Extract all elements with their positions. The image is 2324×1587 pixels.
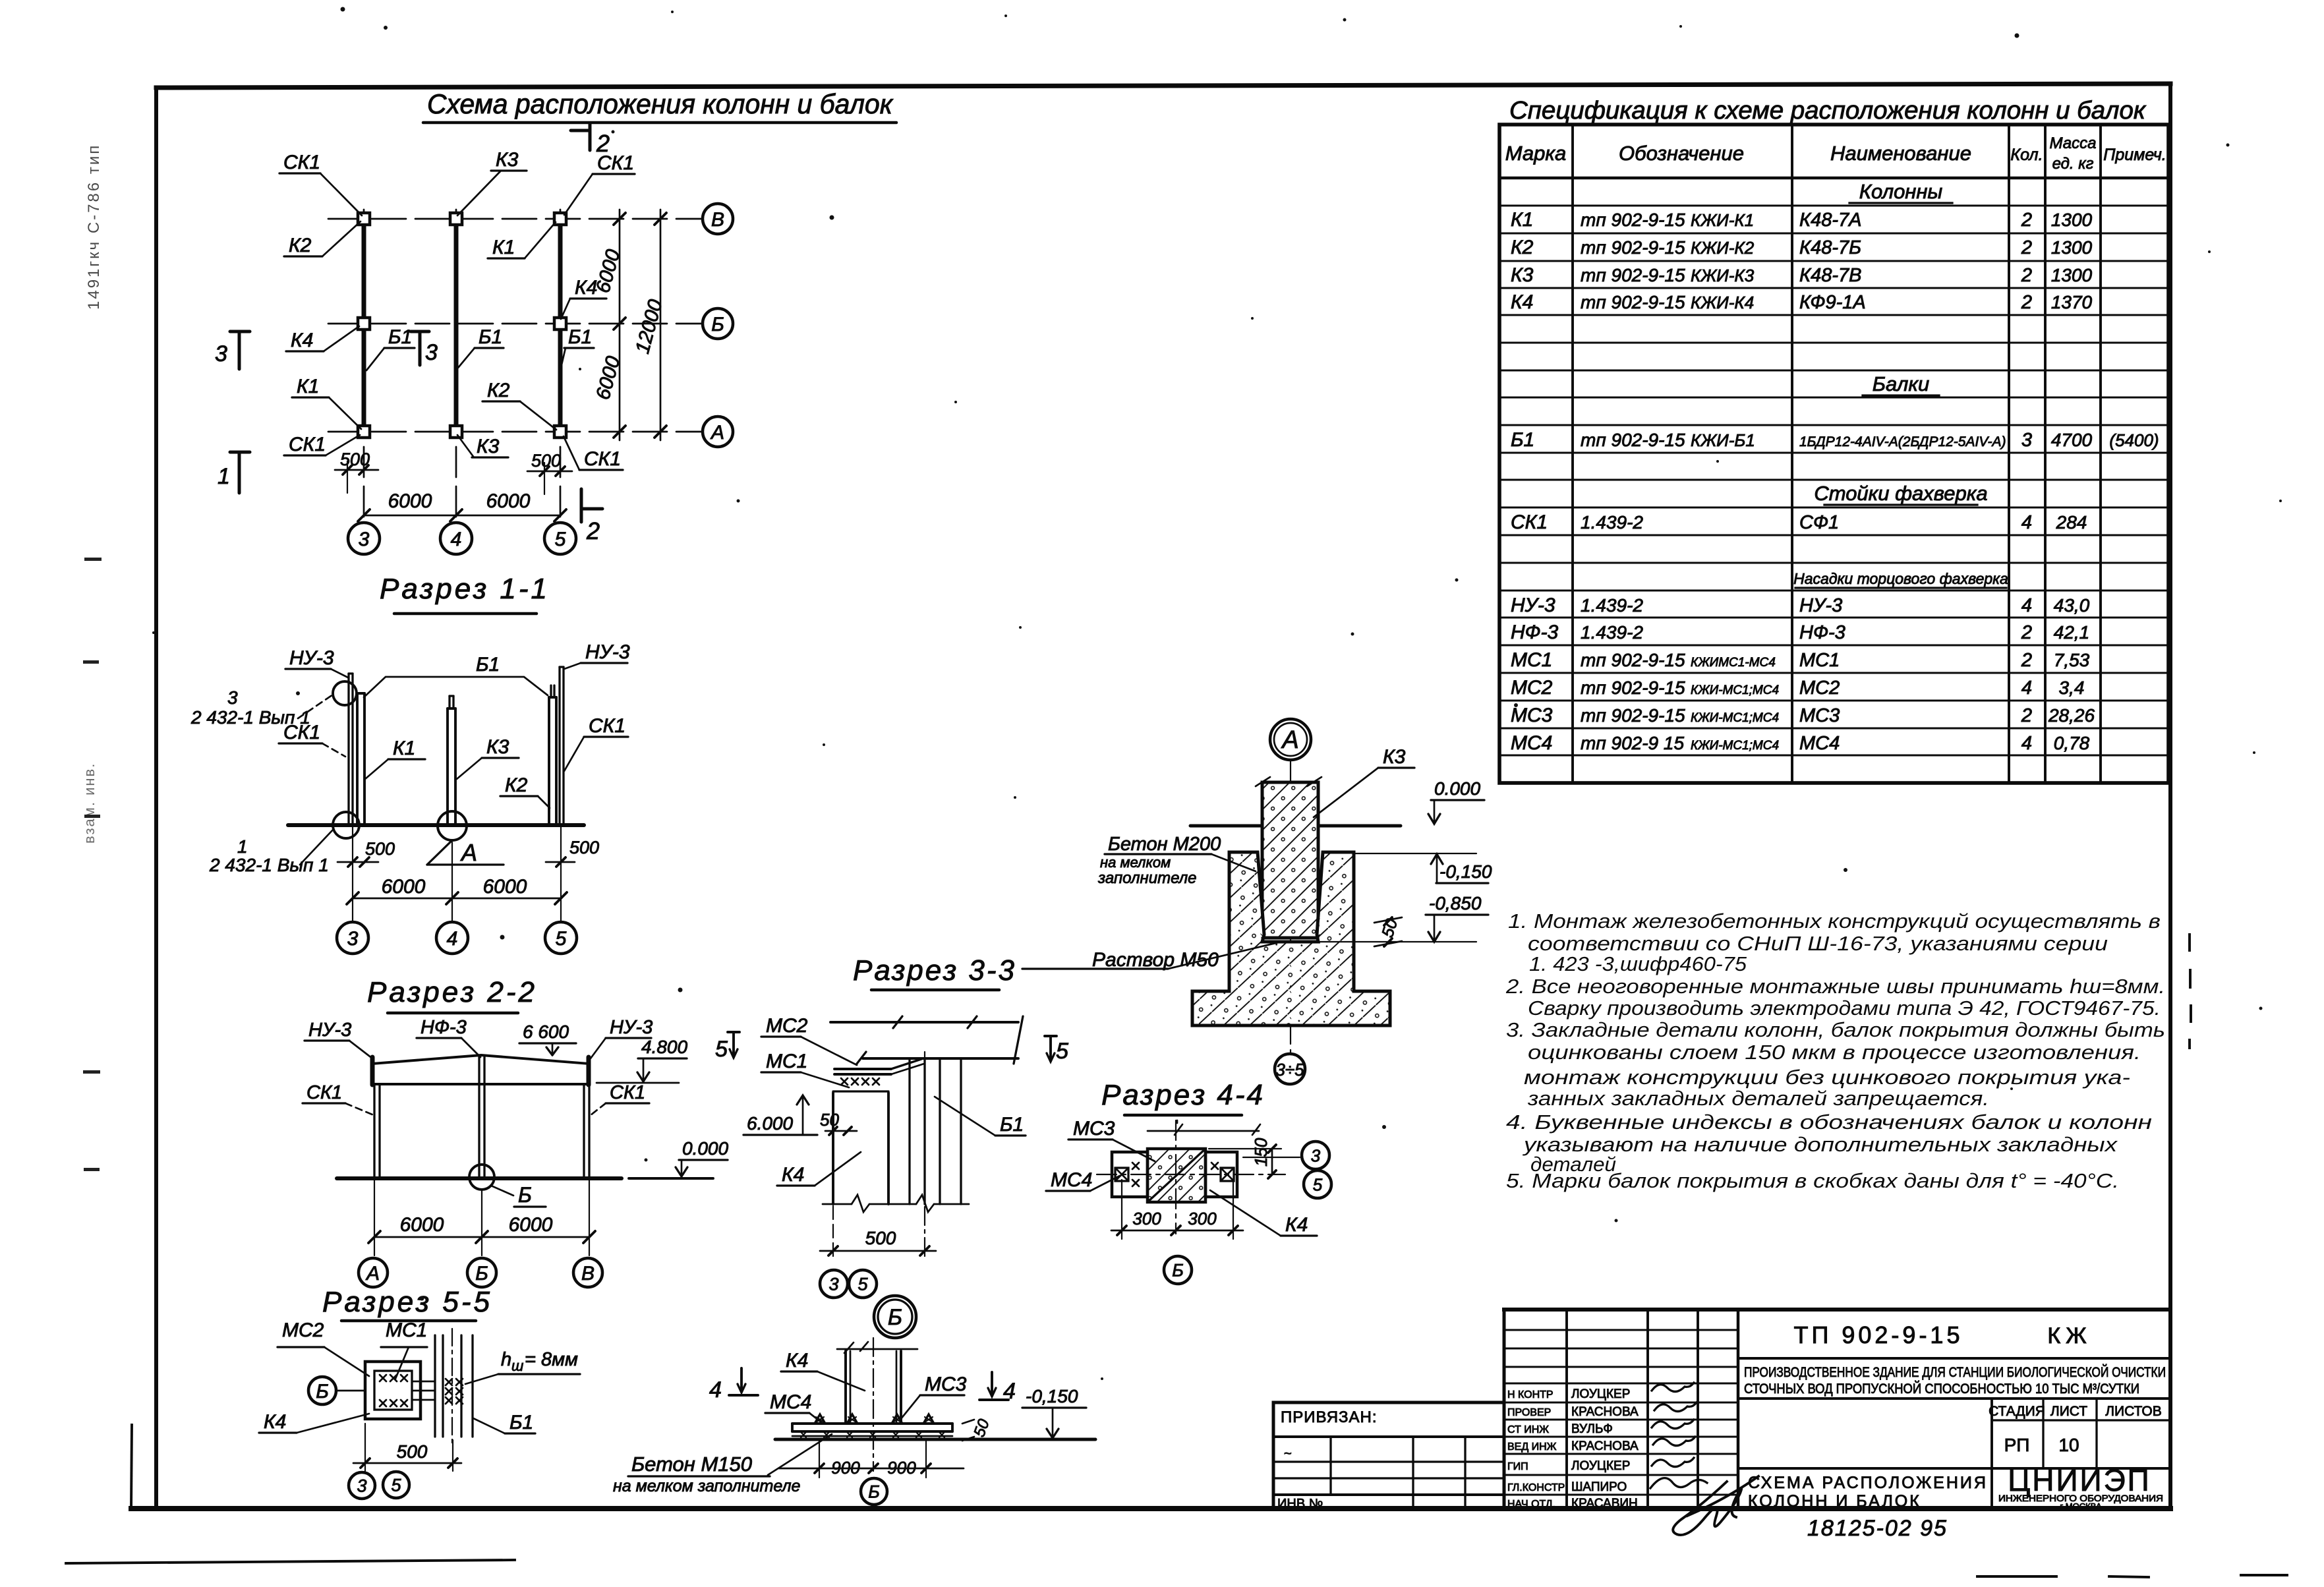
svg-text:2. Все неоговоренные монтажн: 2. Все неоговоренные монтажные швы прини…: [1505, 975, 2165, 998]
svg-text:5: 5: [1313, 1174, 1323, 1194]
svg-text:3: 3: [359, 529, 370, 550]
svg-text:(5400): (5400): [2109, 430, 2159, 450]
svg-text:2 432-1 Вып 1: 2 432-1 Вып 1: [209, 855, 329, 875]
svg-text:7,53: 7,53: [2054, 650, 2090, 670]
svg-text:Б1: Б1: [388, 326, 412, 348]
svg-text:4: 4: [2021, 595, 2032, 616]
svg-text:К3: К3: [1383, 746, 1406, 768]
svg-text:К4: К4: [1511, 291, 1533, 313]
svg-text:оцинкованы слоем 150 мкм в: оцинкованы слоем 150 мкм в процессе изго…: [1528, 1041, 2141, 1064]
svg-text:4: 4: [2021, 733, 2032, 754]
svg-text:5. Марки балок покрытия в ск: 5. Марки балок покрытия в скобках даны д…: [1506, 1169, 2119, 1192]
svg-text:4. Буквенные индексы в обоз: 4. Буквенные индексы в обозначениях бало…: [1506, 1111, 2152, 1134]
svg-text:ГЛ.КОНСТР: ГЛ.КОНСТР: [1507, 1482, 1565, 1493]
svg-text:КОЛОНН И БАЛОК: КОЛОНН И БАЛОК: [1748, 1492, 1921, 1511]
svg-text:КЖ: КЖ: [2047, 1323, 2091, 1348]
svg-text:-0,150: -0,150: [1026, 1386, 1078, 1406]
svg-text:2: 2: [2021, 650, 2032, 671]
svg-text:КЖИ-К1: КЖИ-К1: [1691, 210, 1754, 230]
svg-text:1370: 1370: [2051, 292, 2093, 312]
svg-text:12000: 12000: [631, 297, 667, 356]
svg-text:Разрез 5-5: Разрез 5-5: [322, 1286, 492, 1318]
svg-text:Б: Б: [518, 1183, 532, 1207]
svg-text:42,1: 42,1: [2054, 622, 2090, 643]
svg-text:ЛИСТ: ЛИСТ: [2050, 1404, 2087, 1419]
svg-text:4: 4: [451, 529, 462, 550]
svg-text:Обозначение: Обозначение: [1619, 142, 1744, 165]
svg-text:Колонны: Колонны: [1859, 180, 1943, 203]
svg-text:6000: 6000: [382, 876, 426, 898]
svg-text:СТ ИНЖ: СТ ИНЖ: [1507, 1424, 1549, 1435]
svg-text:ед. кг: ед. кг: [2052, 155, 2094, 173]
svg-text:900: 900: [831, 1458, 860, 1478]
svg-text:Бетон М150: Бетон М150: [631, 1453, 752, 1476]
svg-text:1300: 1300: [2051, 265, 2093, 285]
svg-text:ш: ш: [511, 1358, 523, 1374]
svg-text:Кол.: Кол.: [2010, 146, 2043, 164]
svg-text:1300: 1300: [2051, 237, 2093, 258]
svg-text:КРАСНОВА: КРАСНОВА: [1571, 1405, 1639, 1419]
svg-text:500: 500: [340, 449, 370, 469]
svg-text:КРАСНОВА: КРАСНОВА: [1571, 1439, 1639, 1453]
svg-text:5: 5: [556, 928, 567, 950]
svg-text:284: 284: [2056, 512, 2087, 533]
svg-text:Бетон М200: Бетон М200: [1108, 834, 1221, 855]
svg-text:Спецификация к схеме распол: Спецификация к схеме расположения колонн…: [1509, 97, 2147, 125]
svg-text:НУ-3: НУ-3: [289, 647, 334, 669]
svg-text:К4: К4: [782, 1164, 804, 1186]
svg-text:43,0: 43,0: [2054, 595, 2090, 616]
svg-text:ЛОУЦКЕР: ЛОУЦКЕР: [1571, 1459, 1630, 1473]
svg-text:соответствии со СНиП Ш-16-7: соответствии со СНиП Ш-16-73, указаниями…: [1528, 932, 2108, 955]
svg-text:МС3: МС3: [1511, 705, 1553, 726]
svg-text:2: 2: [586, 517, 600, 544]
svg-text:5: 5: [715, 1037, 728, 1062]
svg-text:Б: Б: [475, 1263, 488, 1284]
svg-text:5: 5: [857, 1275, 868, 1294]
svg-text:МС3: МС3: [925, 1373, 967, 1395]
svg-text:500: 500: [365, 839, 395, 859]
svg-text:18125-02 95: 18125-02 95: [1807, 1516, 1948, 1541]
svg-text:тп 902-9-15: тп 902-9-15: [1581, 705, 1685, 726]
svg-text:6000: 6000: [509, 1214, 553, 1236]
svg-text:тп 902-9-15: тп 902-9-15: [1581, 237, 1685, 258]
svg-text:тп 902-9 15: тп 902-9 15: [1581, 733, 1684, 753]
svg-text:4: 4: [2021, 512, 2032, 533]
svg-text:МС3: МС3: [1073, 1118, 1115, 1140]
svg-text:1300: 1300: [2051, 210, 2093, 230]
svg-text:К48-7А: К48-7А: [1799, 210, 1861, 231]
svg-text:НУ-3: НУ-3: [610, 1017, 653, 1038]
svg-text:3: 3: [425, 340, 438, 365]
svg-text:~: ~: [1284, 1447, 1292, 1461]
svg-text:КЖИМС1-МС4: КЖИМС1-МС4: [1691, 656, 1776, 670]
svg-text:3÷5: 3÷5: [1275, 1060, 1304, 1080]
svg-text:Б1: Б1: [1000, 1114, 1024, 1136]
svg-text:МС3: МС3: [1799, 705, 1840, 726]
svg-text:на мелком заполнителе: на мелком заполнителе: [613, 1477, 800, 1495]
svg-text:3: 3: [357, 1476, 366, 1496]
svg-text:СК1: СК1: [589, 715, 625, 737]
svg-text:К48-7Б: К48-7Б: [1799, 237, 1861, 258]
svg-text:6.000: 6.000: [747, 1113, 793, 1134]
svg-text:К3: К3: [496, 149, 519, 171]
svg-text:2: 2: [2021, 292, 2032, 313]
svg-text:К48-7В: К48-7В: [1799, 265, 1861, 286]
svg-text:6000: 6000: [388, 490, 432, 512]
svg-text:МС4: МС4: [1799, 733, 1840, 754]
svg-text:КЖИ-Б1: КЖИ-Б1: [1691, 430, 1755, 450]
svg-text:Б: Б: [1172, 1261, 1184, 1281]
svg-text:5: 5: [555, 529, 566, 550]
svg-text:взам. инв.: взам. инв.: [81, 763, 98, 844]
svg-text:Б1: Б1: [568, 326, 592, 348]
svg-text:1.439-2: 1.439-2: [1581, 622, 1643, 643]
svg-text:-0,150: -0,150: [1439, 861, 1492, 882]
svg-text:СК1: СК1: [289, 434, 326, 455]
svg-text:СК1: СК1: [584, 448, 621, 470]
svg-text:10: 10: [2058, 1435, 2079, 1455]
svg-text:Б: Б: [711, 314, 724, 335]
svg-text:500: 500: [569, 838, 599, 857]
svg-text:тп 902-9-15: тп 902-9-15: [1581, 430, 1685, 450]
svg-text:500: 500: [397, 1441, 428, 1462]
svg-text:СК1: СК1: [306, 1082, 342, 1103]
svg-text:500: 500: [531, 451, 561, 471]
svg-text:Разрез 1-1: Разрез 1-1: [380, 573, 550, 605]
svg-text:Б: Б: [868, 1482, 880, 1502]
svg-text:ВУЛЬФ: ВУЛЬФ: [1571, 1422, 1613, 1436]
svg-text:28,26: 28,26: [2048, 705, 2095, 726]
svg-text:НФ-3: НФ-3: [1799, 622, 1845, 643]
svg-text:Примеч.: Примеч.: [2103, 146, 2166, 164]
svg-text:К3: К3: [1511, 264, 1534, 286]
svg-text:Масса: Масса: [2050, 134, 2097, 152]
svg-text:К1: К1: [492, 237, 515, 258]
svg-text:ИНВ.№: ИНВ.№: [1277, 1497, 1323, 1511]
svg-text:1: 1: [218, 464, 230, 489]
svg-text:МС2: МС2: [766, 1015, 808, 1037]
svg-text:НУ-3: НУ-3: [1511, 594, 1555, 616]
svg-text:ПРОВЕР: ПРОВЕР: [1507, 1407, 1551, 1418]
svg-text:ТП 902-9-15: ТП 902-9-15: [1794, 1321, 1963, 1348]
svg-text:ВЕД ИНЖ: ВЕД ИНЖ: [1507, 1441, 1557, 1453]
svg-text:Насадки торцового фахверка: Насадки торцового фахверка: [1793, 570, 2008, 587]
svg-text:Наименование: Наименование: [1830, 142, 1971, 165]
svg-text:К4: К4: [575, 277, 597, 299]
svg-text:тп 902-9-15: тп 902-9-15: [1581, 265, 1685, 285]
svg-text:1.439-2: 1.439-2: [1581, 512, 1643, 533]
svg-text:4700: 4700: [2051, 430, 2093, 450]
svg-text:Раствор М50: Раствор М50: [1092, 949, 1219, 971]
svg-text:СФ1: СФ1: [1799, 512, 1839, 533]
svg-text:1. 423 -3,шифр460-75: 1. 423 -3,шифр460-75: [1529, 952, 1747, 975]
svg-text:СК1: СК1: [610, 1082, 645, 1103]
svg-text:МС1: МС1: [386, 1319, 427, 1341]
svg-text:5: 5: [391, 1476, 401, 1495]
svg-text:= 8мм: = 8мм: [525, 1349, 578, 1370]
svg-text:НАЧ ОТД.: НАЧ ОТД.: [1507, 1499, 1555, 1510]
svg-text:ГИП: ГИП: [1507, 1461, 1528, 1472]
svg-text:h: h: [501, 1349, 511, 1370]
svg-text:3: 3: [1311, 1145, 1321, 1165]
svg-text:ШАПИРО: ШАПИРО: [1571, 1480, 1627, 1494]
svg-text:Сварку производить электрода: Сварку производить электродами типа Э 42…: [1528, 996, 2161, 1020]
svg-text:К4: К4: [1285, 1214, 1308, 1236]
svg-text:СК1: СК1: [597, 152, 634, 174]
svg-text:МС4: МС4: [1511, 732, 1552, 754]
svg-text:Схема расположения колонн и ба: Схема расположения колонн и балок: [427, 88, 894, 119]
svg-text:А: А: [1281, 726, 1298, 754]
svg-text:НУ-3: НУ-3: [308, 1020, 351, 1041]
svg-text:Б: Б: [316, 1381, 329, 1402]
svg-text:К2: К2: [505, 774, 528, 796]
svg-text:СК1: СК1: [283, 152, 320, 173]
svg-text:300: 300: [1188, 1209, 1217, 1228]
svg-text:К1: К1: [1511, 209, 1533, 231]
svg-text:тп 902-9-15: тп 902-9-15: [1581, 210, 1685, 230]
svg-text:СК1: СК1: [1511, 511, 1548, 533]
svg-text:2: 2: [2021, 705, 2032, 726]
svg-text:К3: К3: [477, 436, 500, 457]
svg-text:монтаж конструкции без ци: монтаж конструкции без цинкового покрыти…: [1524, 1066, 2130, 1089]
svg-text:А: А: [460, 839, 477, 866]
svg-text:3,4: 3,4: [2059, 678, 2085, 698]
svg-text:1.439-2: 1.439-2: [1581, 595, 1643, 616]
svg-text:6000: 6000: [400, 1214, 444, 1236]
svg-text:КЖИ-МС1;МС4: КЖИ-МС1;МС4: [1691, 683, 1779, 697]
svg-text:К1: К1: [393, 737, 415, 759]
svg-text:3: 3: [347, 928, 359, 950]
svg-text:К4: К4: [264, 1411, 286, 1433]
svg-text:КЖИ-К2: КЖИ-К2: [1691, 238, 1755, 258]
svg-text:СК1: СК1: [283, 722, 320, 743]
svg-text:К3: К3: [486, 736, 509, 758]
svg-text:РП: РП: [2004, 1435, 2030, 1455]
svg-text:Н КОНТР: Н КОНТР: [1507, 1389, 1554, 1400]
svg-text:Марка: Марка: [1505, 142, 1567, 165]
svg-text:К4: К4: [786, 1350, 808, 1371]
svg-text:0.000: 0.000: [1434, 778, 1480, 799]
svg-text:КЖИ-К3: КЖИ-К3: [1691, 266, 1755, 285]
svg-text:К2: К2: [1511, 237, 1534, 258]
svg-text:150: 150: [1251, 1138, 1271, 1167]
svg-text:тп 902-9-15: тп 902-9-15: [1581, 292, 1685, 312]
svg-text:300: 300: [1132, 1209, 1161, 1228]
svg-text:1БДР12-4АIV-А(2БДР12-5АIV-А): 1БДР12-4АIV-А(2БДР12-5АIV-А): [1799, 434, 2006, 449]
svg-text:НУ-3: НУ-3: [1799, 595, 1842, 616]
svg-text:1: 1: [237, 836, 248, 857]
svg-text:А: А: [365, 1263, 380, 1284]
svg-text:ПРИВЯЗАН:: ПРИВЯЗАН:: [1281, 1408, 1378, 1426]
svg-text:900: 900: [887, 1458, 916, 1478]
svg-text:0.000: 0.000: [682, 1138, 728, 1159]
svg-text:2: 2: [2021, 210, 2032, 231]
svg-text:Балки: Балки: [1873, 372, 1929, 395]
svg-text:В: В: [581, 1263, 595, 1284]
svg-text:МС2: МС2: [282, 1319, 324, 1341]
svg-text:3: 3: [2021, 430, 2032, 451]
svg-text:6000: 6000: [483, 876, 527, 898]
svg-text:2: 2: [2021, 622, 2032, 643]
svg-text:КЖИ-МС1;МС4: КЖИ-МС1;МС4: [1691, 711, 1779, 725]
svg-text:ЛОУЦКЕР: ЛОУЦКЕР: [1571, 1387, 1630, 1401]
svg-text:0,78: 0,78: [2054, 733, 2090, 753]
svg-text:тп 902-9-15: тп 902-9-15: [1581, 650, 1685, 670]
svg-text:КЖИ-К4: КЖИ-К4: [1691, 293, 1754, 312]
svg-text:-0,850: -0,850: [1429, 893, 1482, 913]
svg-text:4: 4: [447, 928, 458, 950]
svg-text:К2: К2: [487, 380, 510, 401]
svg-text:Разрез 3-3: Разрез 3-3: [853, 954, 1016, 987]
svg-text:6000: 6000: [486, 490, 531, 512]
svg-text:3. Закладные детали колонн,: 3. Закладные детали колонн, балок покрыт…: [1506, 1018, 2165, 1041]
svg-text:К2: К2: [289, 235, 312, 256]
svg-text:4: 4: [2021, 678, 2032, 699]
svg-text:СТОЧНЫХ ВОД ПРОПУСКНОЙ СПОСОБН: СТОЧНЫХ ВОД ПРОПУСКНОЙ СПОСОБНОСТЬЮ 10 Т…: [1744, 1381, 2139, 1397]
svg-text:4: 4: [709, 1377, 722, 1402]
svg-text:1491гкч С-786 тип: 1491гкч С-786 тип: [85, 144, 103, 310]
svg-text:МС2: МС2: [1799, 678, 1840, 699]
svg-text:заполнителе: заполнителе: [1097, 869, 1197, 887]
svg-text:5: 5: [1056, 1039, 1068, 1064]
svg-text:КРАСАВИН: КРАСАВИН: [1571, 1497, 1638, 1511]
svg-text:6 600: 6 600: [523, 1022, 569, 1042]
svg-text:3: 3: [227, 687, 238, 708]
svg-text:Разрез 4-4: Разрез 4-4: [1101, 1079, 1265, 1111]
svg-text:К4: К4: [291, 330, 313, 351]
svg-text:МС2: МС2: [1511, 677, 1553, 699]
svg-text:НФ-3: НФ-3: [421, 1017, 467, 1038]
svg-text:1. Монтаж железобетонных кон: 1. Монтаж железобетонных конструкций осу…: [1508, 909, 2161, 933]
svg-text:КЖИ-МС1;МС4: КЖИ-МС1;МС4: [1691, 739, 1779, 753]
svg-text:Б1: Б1: [1511, 429, 1534, 451]
svg-text:Разрез 2-2: Разрез 2-2: [367, 976, 537, 1008]
svg-text:тп 902-9-15: тп 902-9-15: [1581, 678, 1685, 698]
svg-text:МС4: МС4: [1051, 1169, 1092, 1191]
svg-text:2: 2: [2021, 237, 2032, 258]
svg-text:Стойки фахверка: Стойки фахверка: [1814, 482, 1987, 505]
svg-text:Б1: Б1: [509, 1412, 533, 1433]
svg-text:3: 3: [828, 1275, 838, 1294]
svg-text:А: А: [710, 422, 724, 444]
svg-text:КФ9-1А: КФ9-1А: [1799, 292, 1866, 313]
svg-text:г МОСКВА: г МОСКВА: [2060, 1501, 2101, 1511]
svg-text:500: 500: [865, 1228, 896, 1248]
svg-text:К1: К1: [297, 376, 319, 397]
svg-text:СХЕМА РАСПОЛОЖЕНИЯ: СХЕМА РАСПОЛОЖЕНИЯ: [1748, 1474, 1988, 1492]
svg-text:ЛИСТОВ: ЛИСТОВ: [2105, 1404, 2162, 1419]
svg-text:3: 3: [215, 341, 227, 366]
svg-text:ПРОИЗВОДСТВЕННОЕ ЗДАНИЕ ДЛЯ СТ: ПРОИЗВОДСТВЕННОЕ ЗДАНИЕ ДЛЯ СТАНЦИИ БИОЛ…: [1744, 1364, 2166, 1380]
svg-text:Б1: Б1: [479, 326, 502, 348]
svg-text:Б: Б: [888, 1305, 902, 1330]
svg-text:В: В: [711, 209, 724, 231]
svg-text:занных закладных деталей за: занных закладных деталей запрещается.: [1527, 1087, 1989, 1110]
svg-text:МС1: МС1: [1799, 650, 1840, 671]
svg-text:2: 2: [2021, 265, 2032, 286]
svg-text:НФ-3: НФ-3: [1511, 621, 1559, 643]
svg-text:МС1: МС1: [766, 1051, 807, 1072]
svg-text:Б1: Б1: [476, 654, 500, 676]
svg-text:МС1: МС1: [1511, 649, 1552, 671]
svg-text:МС4: МС4: [770, 1391, 811, 1413]
svg-text:4.800: 4.800: [641, 1037, 687, 1057]
svg-text:на мелком: на мелком: [1100, 854, 1171, 871]
svg-text:НУ-3: НУ-3: [585, 641, 630, 663]
svg-text:СТАДИЯ: СТАДИЯ: [1989, 1404, 2045, 1419]
